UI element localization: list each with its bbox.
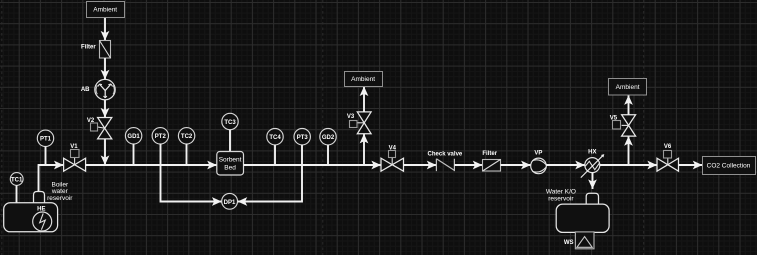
svg-text:Bed: Bed (224, 165, 236, 172)
wire check valve to filter F2 (454, 164, 482, 166)
svg-text:GD2: GD2 (322, 135, 335, 141)
wire GD1 stem (133, 144, 135, 165)
svg-text:V5: V5 (610, 115, 618, 121)
node Ambient (top-left) (87, 2, 125, 18)
valve V1 (64, 144, 86, 171)
instrument GD1 (125, 128, 141, 144)
svg-text:V6: V6 (664, 144, 672, 150)
weighing scale WS (564, 232, 594, 249)
svg-text:TC4: TC4 (269, 135, 281, 141)
svg-text:Filter: Filter (482, 151, 497, 157)
svg-text:VP: VP (534, 150, 542, 156)
wire main line to valve V3 (363, 134, 365, 165)
wire TC1 stem (16, 185, 18, 203)
svg-text:Ambient: Ambient (351, 76, 375, 83)
wire TC4 stem (274, 145, 276, 165)
svg-text:PT2: PT2 (155, 134, 167, 140)
wire PT2 stem down to DP1 (161, 144, 222, 202)
wire HX down to water KO reservoir (592, 173, 594, 190)
wire main line to valve V5 (628, 136, 630, 165)
valve V2 (87, 118, 112, 139)
svg-text:TC1: TC1 (11, 177, 23, 183)
svg-text:HE: HE (37, 207, 45, 213)
svg-text:TC3: TC3 (224, 120, 236, 126)
svg-text:Filter: Filter (81, 45, 96, 51)
svg-text:AB: AB (81, 87, 90, 93)
instrument GD2 (320, 129, 336, 145)
wire filter F2 to vacuum pump VP (501, 164, 531, 166)
check valve (428, 151, 463, 171)
svg-text:V4: V4 (389, 146, 397, 152)
svg-text:reservoir: reservoir (548, 196, 574, 203)
wire down to boiler reservoir (38, 164, 40, 193)
wire valve V1 to sorbent bed (86, 164, 217, 166)
instrument TC4 (267, 129, 283, 145)
wire sorbent bed to valve V4 (244, 164, 382, 166)
svg-text:GD1: GD1 (127, 134, 140, 140)
svg-text:V2: V2 (87, 118, 95, 124)
svg-text:Check valve: Check valve (428, 151, 463, 157)
valve V6 (657, 144, 679, 171)
svg-text:reservoir: reservoir (47, 195, 73, 202)
svg-text:Ambient: Ambient (93, 7, 117, 14)
instrument TC3 (222, 113, 238, 129)
wire Filter F1 to blower AB (104, 58, 106, 79)
svg-text:Sorbent: Sorbent (219, 157, 242, 164)
wire valve V3 to Ambient2 (363, 86, 365, 112)
filter F1 (81, 41, 110, 59)
svg-text:Water K/O: Water K/O (546, 189, 576, 196)
wire valve V6 to CO2 collection (679, 164, 703, 166)
instrument PT2 (152, 128, 168, 144)
wire GD2 stem (327, 145, 329, 165)
wire Ambient1 to Filter F1 (104, 18, 106, 41)
svg-text:PT1: PT1 (40, 137, 52, 143)
instrument DP1 (222, 193, 238, 209)
filter F2 (482, 151, 500, 171)
valve V4 (381, 146, 404, 172)
wire TC3 stem (229, 130, 231, 152)
node Ambient (above V3) (345, 72, 383, 87)
wire vacuum pump VP to heat exchanger HX (546, 164, 585, 166)
wire TC2 stem (186, 144, 188, 165)
valve V3 (347, 112, 371, 134)
vacuum pump VP (531, 150, 547, 173)
wire heat exchanger HX to valve V6 (600, 164, 657, 166)
svg-text:CO2 Collection: CO2 Collection (707, 163, 751, 170)
valve V5 (610, 115, 636, 136)
instrument TC2 (178, 128, 194, 144)
instrument TC1 (10, 173, 23, 186)
wire valve V2 to main line (104, 139, 106, 165)
svg-text:TC2: TC2 (181, 134, 193, 140)
wire valve V5 to Ambient3 (628, 95, 630, 115)
svg-text:Ambient: Ambient (616, 84, 640, 91)
svg-text:V1: V1 (70, 144, 78, 150)
heat exchanger HX (581, 150, 605, 178)
heater HE (33, 207, 52, 232)
svg-text:DP1: DP1 (224, 200, 236, 206)
wire blower AB to valve V2 (104, 100, 106, 118)
svg-text:WS: WS (564, 240, 574, 246)
boiler water reservoir tank (4, 182, 74, 232)
wire main line start to valve V1 (38, 164, 64, 166)
wire valve V4 to check valve (404, 164, 437, 166)
svg-text:PT3: PT3 (297, 135, 309, 141)
instrument PT3 (294, 129, 310, 145)
blower AB (81, 79, 115, 99)
svg-text:HX: HX (588, 150, 596, 156)
wire PT3 stem down to DP1 (238, 145, 302, 202)
wire PT1 stem (45, 147, 47, 166)
node CO2 Collection (703, 157, 756, 175)
sorbent bed (217, 152, 244, 176)
node Ambient (above V5) (609, 79, 647, 96)
svg-text:V3: V3 (347, 114, 355, 120)
water KO reservoir tank (546, 189, 609, 233)
instrument PT1 (37, 130, 53, 146)
